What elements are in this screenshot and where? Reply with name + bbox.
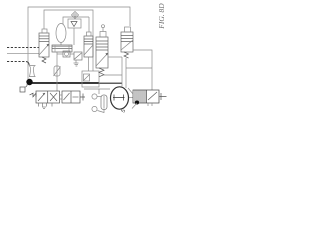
svg-text:5: 5 bbox=[121, 108, 128, 114]
